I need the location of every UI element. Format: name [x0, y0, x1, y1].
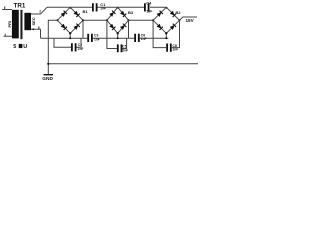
node R3 dot: [179, 19, 181, 21]
svg-text:TR1: TR1: [14, 3, 26, 10]
pin P1 primary top: [2, 6, 12, 9]
wire top AC bus segment 2: [98, 6, 145, 8]
wire chain R2 to L3: [129, 19, 154, 21]
bridge B2 diode D-SE: [170, 24, 176, 30]
transformer TR1 primary winding: [12, 10, 19, 39]
svg-text:B1: B1: [83, 9, 89, 14]
wire L3 riser: [153, 20, 166, 47]
bridge B3 diode D-NW: [110, 11, 116, 17]
svg-text:GND: GND: [42, 76, 53, 82]
bridge B1 diode D-SW: [61, 24, 67, 30]
pin P2 primary bottom: [4, 34, 12, 37]
node T1 junction dot: [69, 7, 72, 9]
bridge B2 diamond outline: [153, 7, 179, 33]
svg-text:2nF: 2nF: [122, 49, 128, 53]
wire AC2 bus segment 1: [41, 37, 88, 39]
wire B1 stub: [69, 33, 71, 38]
capacitor C8 plates: [167, 44, 171, 52]
wire top AC bus segment 1: [47, 6, 92, 8]
bridge B3 diode D-NE: [120, 11, 126, 17]
node T3 junction dot: [165, 7, 168, 9]
ground bus: [48, 63, 198, 65]
svg-text:1nF: 1nF: [94, 38, 100, 42]
svg-text:2nF: 2nF: [173, 48, 179, 52]
bridge B3 diode D-SW: [110, 24, 116, 30]
wire L2 riser: [107, 20, 117, 48]
capacitor C6 plates: [135, 34, 139, 42]
node B1 vertex dot: [69, 32, 71, 34]
bridge B1 diode D-NW: [61, 11, 67, 17]
svg-text:6: 6: [38, 26, 40, 30]
wire B2 stub: [165, 33, 167, 38]
bridge B2 diode D-NE: [170, 11, 176, 17]
wire AC2 bus segment 3: [140, 37, 169, 39]
svg-text:PRI: PRI: [7, 21, 12, 28]
wire chain R1 to L2: [83, 19, 107, 21]
node L1 dot: [56, 19, 58, 21]
transformer core: [20, 10, 22, 39]
svg-text:B2: B2: [176, 10, 182, 15]
node R2 dot: [128, 19, 130, 21]
capacitor C1 plates: [93, 3, 97, 11]
wire AC2 bus segment 2: [92, 37, 135, 39]
node L3 dot: [152, 19, 154, 21]
capacitor C4 plates: [145, 3, 149, 11]
svg-text:1nF: 1nF: [141, 37, 147, 41]
svg-text:SEC: SEC: [31, 17, 36, 25]
bridge B1 diode D-SE: [74, 24, 80, 30]
capacitor C3 plates: [88, 34, 92, 42]
bridge B1 diode D-NE: [74, 11, 80, 17]
bridge B1 diamond outline: [57, 7, 83, 33]
svg-text:B3: B3: [128, 10, 134, 15]
wire lower link stage1 left: [54, 38, 71, 47]
node B3 bus dot: [117, 37, 119, 39]
wire L1 to ground riser: [48, 20, 57, 74]
capacitor C2 plates: [72, 43, 76, 51]
wire B3 stub: [117, 33, 119, 38]
node T2 junction dot: [116, 7, 119, 9]
capacitor C5 plates: [118, 44, 122, 52]
bridge B2 diode D-NW: [157, 11, 163, 17]
bridge B3 diode D-SE: [120, 24, 126, 30]
node B1 bus dot: [69, 37, 71, 39]
node L2 dot: [106, 19, 108, 21]
wire secondary top pin to top bus: [31, 7, 47, 14]
svg-text:5: 5: [13, 44, 16, 50]
svg-text:U: U: [23, 44, 27, 50]
wire output 15V: [180, 17, 198, 20]
node B2 bus dot: [165, 37, 167, 39]
bridge B3 diamond outline: [107, 7, 129, 33]
junction dot secondary bottom: [32, 28, 34, 30]
wire lower link stage1 right: [77, 38, 82, 47]
wire lower link stage2 right: [122, 38, 126, 48]
svg-text:1nF: 1nF: [146, 10, 152, 14]
bridge B2 diode D-SW: [157, 24, 163, 30]
node R1 dot: [82, 19, 84, 21]
wire R1 drop to AC2 bus: [82, 20, 84, 38]
wire top AC bus segment 3: [150, 6, 166, 8]
node B3 vertex dot: [117, 32, 119, 34]
ground symbol bar: [44, 74, 54, 76]
wire secondary bottom pin: [31, 29, 41, 38]
node ground bus junction dot: [47, 63, 49, 65]
wire R2 drop to AC2 bus: [128, 20, 130, 38]
transformer TR1 secondary winding: [24, 13, 31, 30]
svg-text:C4: C4: [146, 0, 152, 5]
svg-text:1nF: 1nF: [100, 6, 106, 10]
svg-text:15V: 15V: [186, 18, 195, 23]
node B2 vertex dot: [165, 32, 167, 34]
wire lower link stage3 right: [172, 20, 180, 47]
